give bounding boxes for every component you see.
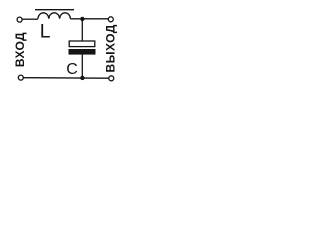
capacitor C bottom plate xyxy=(69,49,96,55)
svg-text:L: L xyxy=(40,21,51,42)
wire inductor to output xyxy=(70,18,108,20)
output terminal bottom-right xyxy=(109,76,114,81)
capacitor C top plate xyxy=(69,41,95,47)
node junction bottom xyxy=(80,76,84,80)
svg-text:ВЫХОД: ВЫХОД xyxy=(103,24,117,72)
input terminal bottom-left xyxy=(18,75,23,80)
svg-text:ВХОД: ВХОД xyxy=(13,32,27,67)
node junction top xyxy=(80,17,84,21)
inductor L1 coil xyxy=(38,13,70,19)
wire top-left to inductor xyxy=(22,18,38,20)
input terminal top-left xyxy=(17,17,22,22)
svg-text:C: C xyxy=(66,61,78,78)
bottom rail wire xyxy=(23,77,108,80)
wire junction down to capacitor xyxy=(81,19,83,41)
wire capacitor down to bottom rail xyxy=(81,55,83,79)
output terminal top-right xyxy=(108,17,113,22)
inductor core line xyxy=(35,9,74,11)
